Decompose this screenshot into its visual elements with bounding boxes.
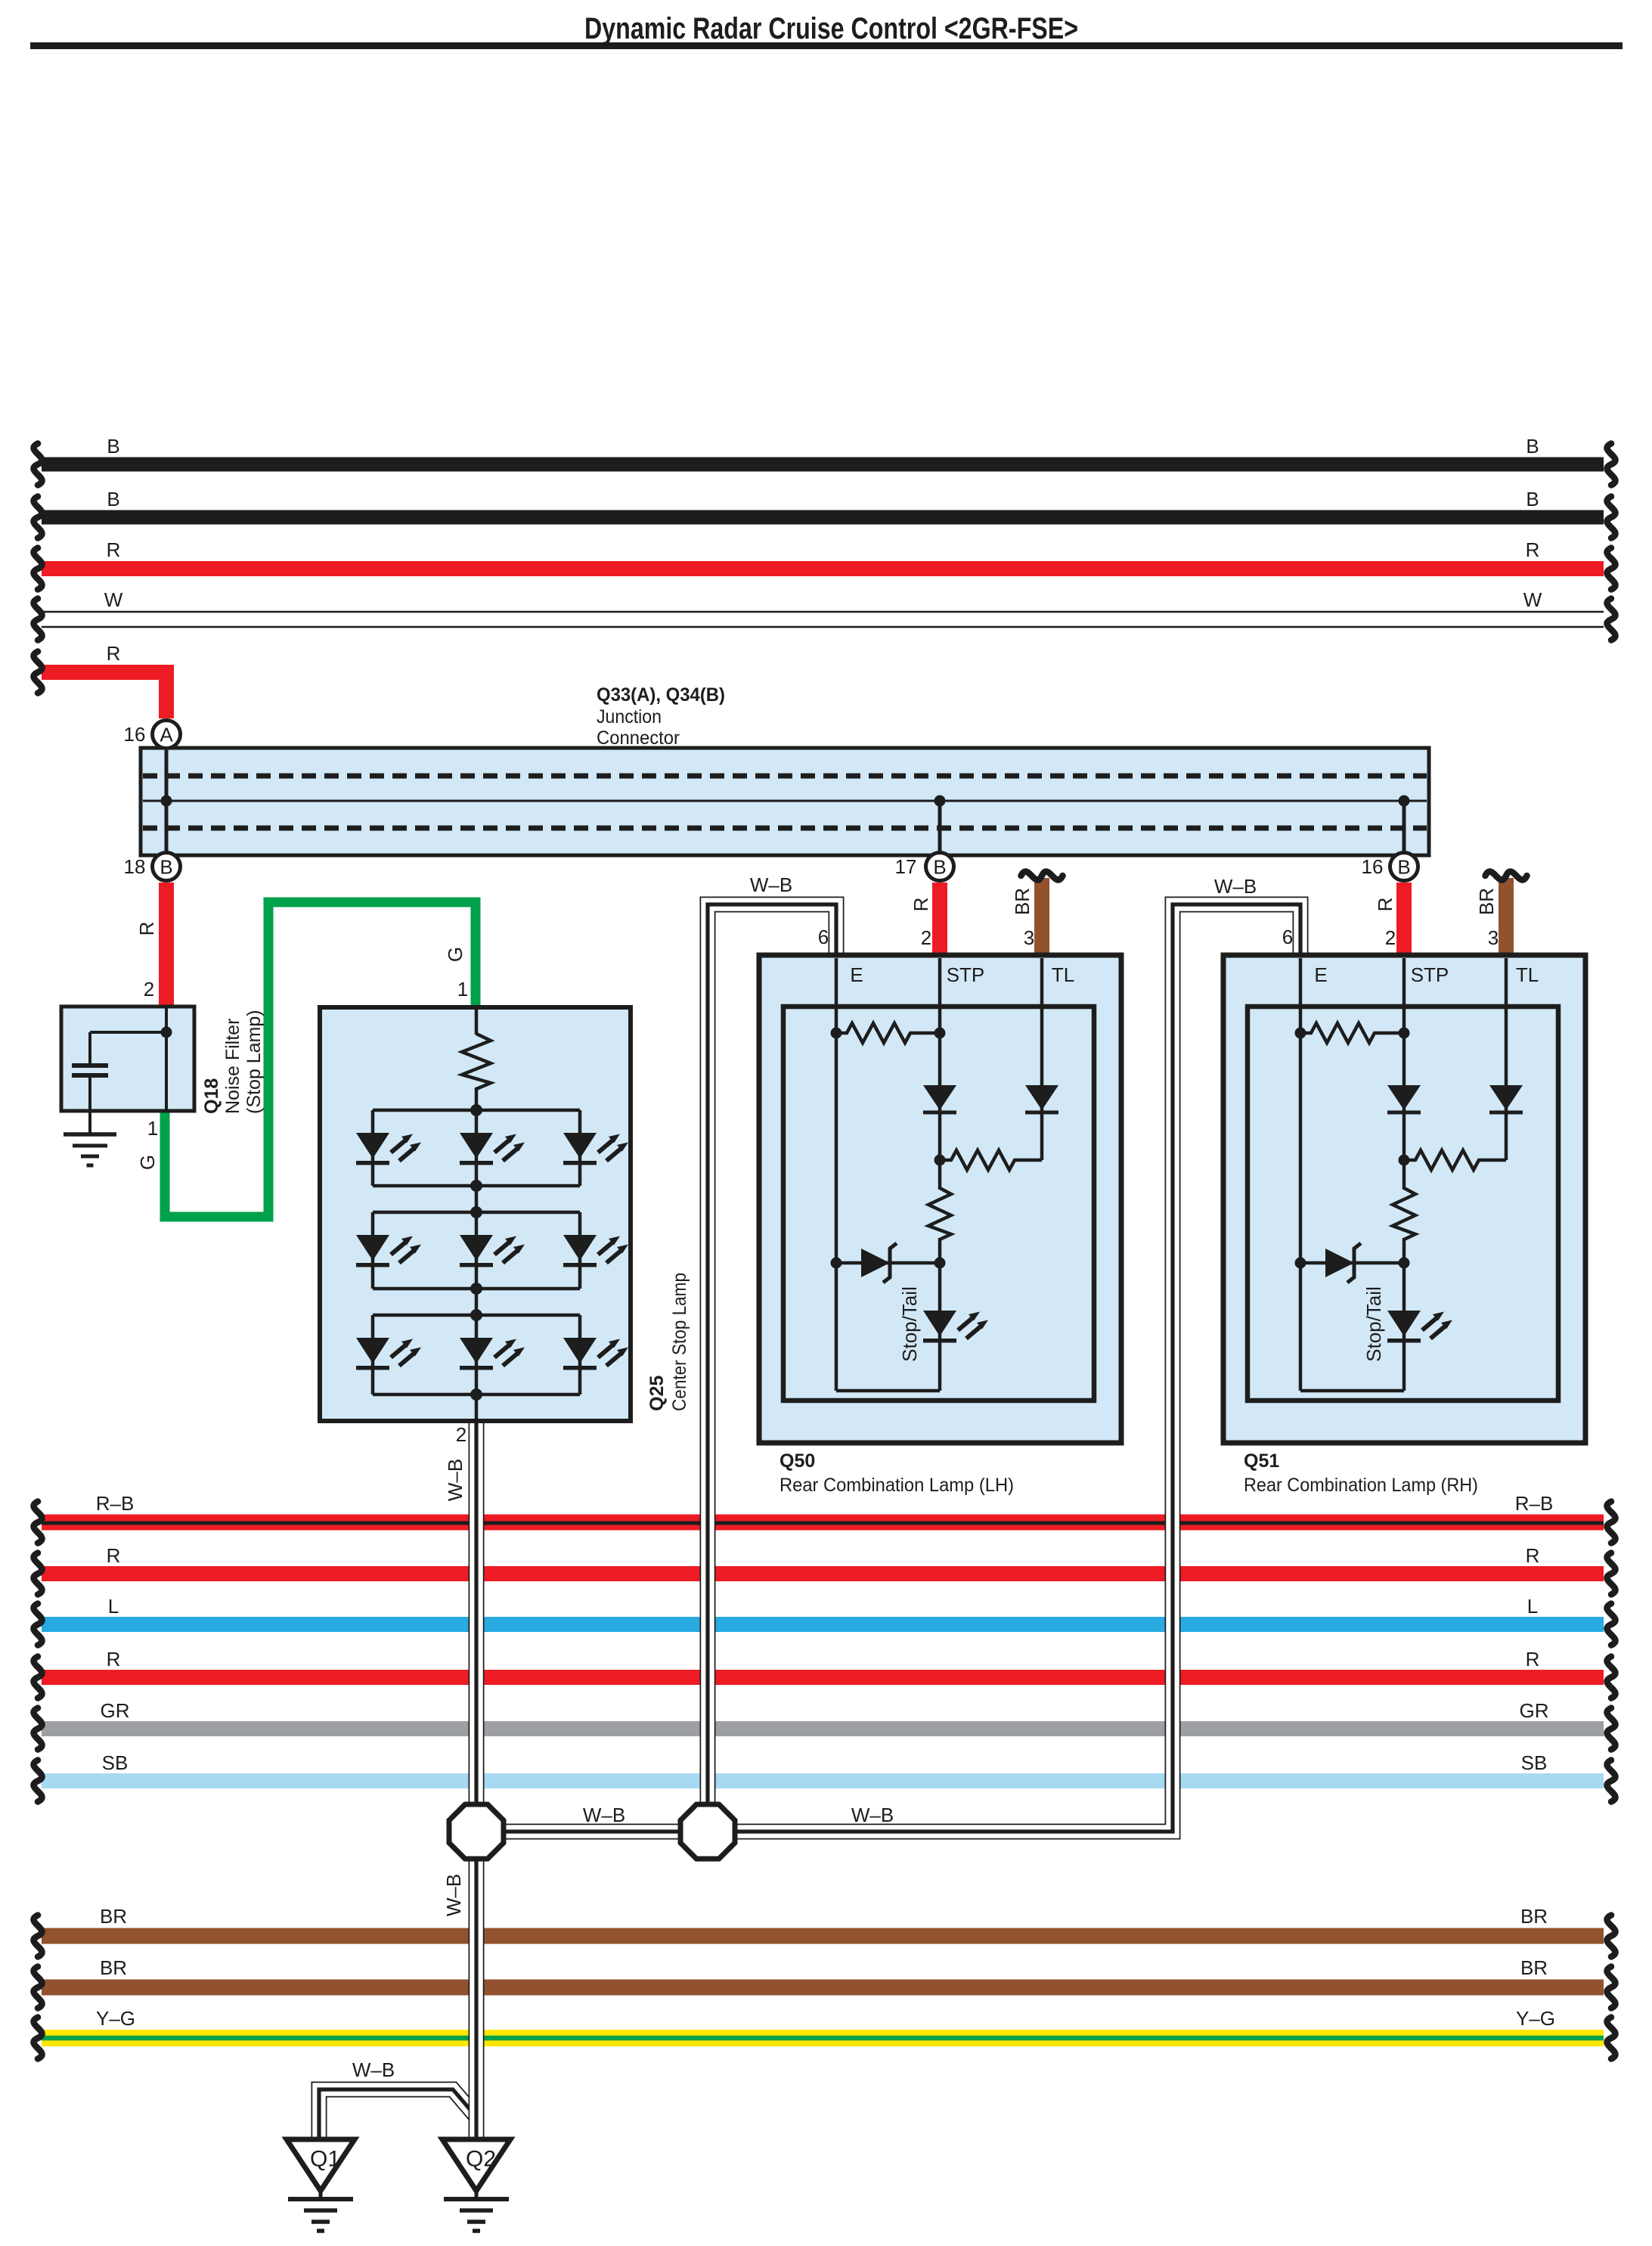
svg-text:R: R xyxy=(107,1544,121,1567)
svg-text:6: 6 xyxy=(818,926,829,948)
svg-text:Dynamic Radar Cruise Control <: Dynamic Radar Cruise Control <2GR-FSE> xyxy=(584,12,1078,45)
svg-text:G: G xyxy=(444,947,466,962)
svg-text:2: 2 xyxy=(144,978,154,1000)
svg-text:W–B: W–B xyxy=(442,1874,465,1916)
svg-text:1: 1 xyxy=(457,978,468,1000)
svg-text:2: 2 xyxy=(456,1423,466,1446)
svg-text:GR: GR xyxy=(101,1699,130,1722)
svg-text:BR: BR xyxy=(100,1956,127,1979)
svg-text:R: R xyxy=(1526,1648,1540,1671)
svg-text:R: R xyxy=(107,642,121,665)
svg-text:R: R xyxy=(910,898,932,912)
svg-text:B: B xyxy=(160,855,172,878)
svg-text:2: 2 xyxy=(921,926,931,949)
svg-text:W–B: W–B xyxy=(750,873,792,896)
svg-text:Q1: Q1 xyxy=(310,2147,340,2172)
svg-text:G: G xyxy=(136,1155,159,1170)
svg-text:Rear Combination Lamp (RH): Rear Combination Lamp (RH) xyxy=(1244,1475,1478,1496)
svg-text:W–B: W–B xyxy=(352,2058,395,2081)
svg-text:L: L xyxy=(108,1595,119,1618)
svg-text:Connector: Connector xyxy=(597,727,680,749)
svg-text:E: E xyxy=(850,963,863,986)
svg-text:STP: STP xyxy=(947,963,985,986)
svg-text:R: R xyxy=(107,538,121,561)
svg-text:B: B xyxy=(1526,488,1539,510)
svg-text:Q25: Q25 xyxy=(646,1376,668,1411)
svg-text:R: R xyxy=(1526,1544,1540,1567)
svg-text:W: W xyxy=(104,588,123,611)
svg-text:Stop/Tail: Stop/Tail xyxy=(898,1286,921,1362)
svg-text:Center Stop Lamp: Center Stop Lamp xyxy=(669,1273,690,1411)
svg-text:Y–G: Y–G xyxy=(1516,2007,1555,2030)
svg-text:W–B: W–B xyxy=(444,1459,466,1501)
svg-text:W: W xyxy=(1523,588,1542,611)
svg-text:18: 18 xyxy=(124,855,146,878)
svg-text:Q50: Q50 xyxy=(780,1450,815,1472)
svg-text:R: R xyxy=(1526,538,1540,561)
svg-text:SB: SB xyxy=(1521,1751,1548,1774)
svg-text:L: L xyxy=(1527,1595,1538,1618)
svg-text:TL: TL xyxy=(1052,963,1074,986)
svg-text:W–B: W–B xyxy=(851,1804,894,1826)
svg-text:Q18: Q18 xyxy=(201,1078,222,1114)
svg-text:(Stop Lamp): (Stop Lamp) xyxy=(243,1010,265,1114)
svg-text:Q33(A), Q34(B): Q33(A), Q34(B) xyxy=(597,684,725,706)
svg-text:SB: SB xyxy=(102,1751,129,1774)
svg-text:BR: BR xyxy=(1520,1905,1548,1928)
svg-text:3: 3 xyxy=(1024,926,1034,949)
svg-text:Rear Combination Lamp (LH): Rear Combination Lamp (LH) xyxy=(780,1475,1014,1496)
svg-text:Junction: Junction xyxy=(597,706,662,727)
svg-text:1: 1 xyxy=(147,1117,158,1140)
svg-text:Q2: Q2 xyxy=(466,2147,496,2172)
svg-text:16: 16 xyxy=(124,723,146,746)
svg-text:17: 17 xyxy=(895,855,917,878)
svg-text:B: B xyxy=(933,855,946,878)
svg-text:BR: BR xyxy=(100,1905,127,1928)
svg-text:B: B xyxy=(1397,855,1410,878)
svg-text:GR: GR xyxy=(1520,1699,1549,1722)
svg-text:R: R xyxy=(107,1648,121,1671)
svg-text:R–B: R–B xyxy=(96,1492,135,1515)
svg-text:BR: BR xyxy=(1520,1956,1548,1979)
svg-text:R: R xyxy=(135,922,158,936)
svg-text:Q51: Q51 xyxy=(1244,1450,1279,1472)
svg-text:W–B: W–B xyxy=(583,1804,625,1826)
svg-text:Noise Filter: Noise Filter xyxy=(222,1019,243,1114)
svg-text:R–B: R–B xyxy=(1515,1492,1554,1515)
svg-text:B: B xyxy=(1526,435,1539,458)
svg-text:W–B: W–B xyxy=(1214,875,1257,898)
svg-text:B: B xyxy=(107,488,119,510)
svg-text:B: B xyxy=(107,435,119,458)
svg-text:BR: BR xyxy=(1011,888,1034,915)
svg-text:Y–G: Y–G xyxy=(96,2007,135,2030)
svg-text:16: 16 xyxy=(1362,855,1384,878)
svg-text:A: A xyxy=(160,723,173,746)
